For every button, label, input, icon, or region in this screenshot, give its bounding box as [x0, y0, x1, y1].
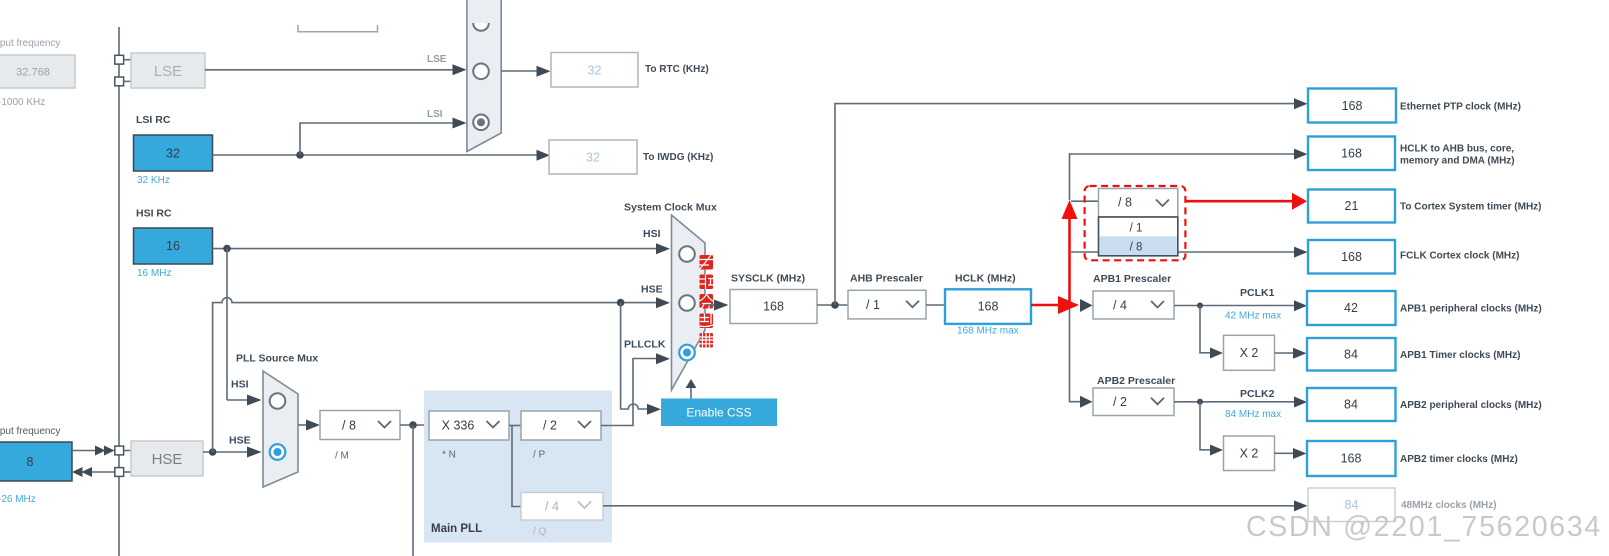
node HSE junction [209, 448, 217, 456]
wire N to P [509, 425, 521, 427]
svg-text:LSI: LSI [427, 109, 443, 120]
svg-text:84: 84 [1344, 398, 1358, 412]
svg-text:To Cortex System timer (MHz): To Cortex System timer (MHz) [1400, 202, 1542, 213]
multiplier X2 APB2 [1224, 436, 1275, 471]
output box APB1 timer 84 [1307, 338, 1396, 371]
svg-text:HCLK to AHB bus, core,: HCLK to AHB bus, core, [1400, 143, 1514, 154]
wire AHB to HCLK [926, 304, 945, 306]
SYSCLK value box 168 [730, 290, 817, 324]
wire Enable CSS up arrow [690, 388, 692, 399]
svg-text:32: 32 [166, 147, 180, 161]
wire PCLK1 [1174, 305, 1294, 307]
output box ethernet PTP 168 [1308, 89, 1396, 123]
svg-text:APB2 peripheral clocks (MHz): APB2 peripheral clocks (MHz) [1400, 400, 1542, 411]
button Enable CSS [661, 399, 777, 427]
node PCLK1 junction [1197, 303, 1203, 309]
svg-text:HCLK (MHz): HCLK (MHz) [955, 273, 1016, 285]
Main PLL panel [424, 391, 612, 543]
svg-text:168 MHz max: 168 MHz max [957, 326, 1019, 337]
svg-text:-1000 KHz: -1000 KHz [0, 97, 45, 108]
radio sys HSE (unselected) [679, 295, 695, 311]
svg-text:X 2: X 2 [1240, 447, 1259, 461]
svg-text:84: 84 [1345, 498, 1359, 512]
wire LSI branch to RTC mux [300, 123, 453, 155]
radio PLL HSI (unselected) [270, 393, 286, 409]
wire branch down to Q [512, 426, 521, 507]
svg-text:APB1 Prescaler: APB1 Prescaler [1093, 273, 1171, 285]
svg-text:8: 8 [27, 455, 34, 469]
output box APB1 peripheral 42 [1307, 291, 1396, 325]
wire HSE pin stubs [124, 450, 131, 452]
wire stub to cortex prescaler [1071, 200, 1099, 202]
wire HSE output [203, 451, 247, 453]
svg-text:To RTC (KHz): To RTC (KHz) [645, 64, 709, 75]
wire HSI to system clock mux [213, 248, 657, 250]
node LSI junction [296, 151, 304, 159]
svg-text:/ 4: / 4 [1113, 299, 1127, 313]
wire gray vertical down to APB2 [1070, 305, 1081, 402]
node HSI junction [223, 245, 231, 253]
wire HSI branch down to PLL mux [226, 249, 228, 400]
svg-text:APB2 timer clocks (MHz): APB2 timer clocks (MHz) [1400, 454, 1518, 465]
svg-text:32 KHz: 32 KHz [137, 175, 170, 186]
radio sys HSI (unselected) [679, 246, 695, 262]
svg-text:* N: * N [442, 450, 456, 461]
HSE input frequency field 8 [0, 442, 72, 481]
wire FCLK line [1071, 251, 1294, 253]
svg-text:32.768: 32.768 [16, 67, 50, 79]
output box 48MHz clocks 84 (disabled) [1308, 488, 1395, 522]
oscillator HSE [131, 441, 203, 476]
svg-text:/ P: / P [533, 450, 546, 461]
char xuan [700, 314, 714, 329]
oscillator LSI RC 32 [134, 135, 213, 171]
svg-text:PLL Source Mux: PLL Source Mux [236, 353, 318, 365]
wire HSE up to system clock mux (with hop over HSI line) [213, 298, 656, 452]
mux PLL source [263, 371, 298, 487]
wire SYSCLK to AHB [817, 304, 848, 306]
char lu [700, 275, 714, 290]
svg-text:Main PLL: Main PLL [431, 523, 482, 535]
wire HCLK red [1031, 304, 1058, 307]
svg-text:168: 168 [1341, 452, 1362, 466]
svg-text:PCLK1: PCLK1 [1240, 287, 1275, 299]
wire HSE to Enable CSS (hop over PLLCLK line) [621, 303, 647, 409]
svg-text:42 MHz max: 42 MHz max [1225, 311, 1281, 322]
partial box top (cut off) [298, 25, 378, 32]
output box FCLK 168 [1308, 240, 1395, 274]
wire down to APB1 timer X2 [1200, 306, 1210, 353]
multiplier X2 APB1 [1224, 335, 1275, 370]
node PLL input junction [409, 421, 417, 429]
svg-text:X 336: X 336 [442, 419, 475, 433]
dropdown APB1 prescaler /4 [1093, 291, 1174, 319]
annotation red chinese chars (vertical) [700, 255, 714, 348]
svg-text:48MHz clocks (MHz): 48MHz clocks (MHz) [1401, 500, 1497, 511]
svg-text:/ 2: / 2 [1113, 395, 1127, 409]
svg-text:HSI RC: HSI RC [136, 208, 172, 220]
output box APB2 timer 168 [1307, 441, 1396, 476]
svg-text:PLLCLK: PLLCLK [624, 339, 666, 351]
wire LSE pin stubs [124, 59, 131, 61]
svg-text:X 2: X 2 [1240, 346, 1259, 360]
dropdown AHB prescaler /1 [848, 290, 926, 319]
svg-text:/ 1: / 1 [1130, 223, 1143, 235]
svg-text:168: 168 [763, 300, 784, 314]
wire X2 to APB2 timer box [1275, 452, 1294, 454]
wire X2 to APB1 timer box [1275, 352, 1294, 354]
svg-text:Enable CSS: Enable CSS [686, 406, 751, 420]
svg-text:SYSCLK (MHz): SYSCLK (MHz) [731, 273, 805, 285]
svg-text:Ethernet PTP clock (MHz): Ethernet PTP clock (MHz) [1400, 102, 1521, 113]
char fen [700, 294, 714, 309]
svg-text:84: 84 [1344, 348, 1358, 362]
radio PLL HSE (selected) [270, 444, 286, 460]
svg-text:To IWDG (KHz): To IWDG (KHz) [643, 152, 713, 163]
oscillator HSI RC 16 [134, 228, 213, 264]
wire red vertical up [1068, 219, 1071, 304]
dropdown /M divider [320, 411, 400, 440]
pin square LSE top [115, 55, 124, 64]
dropdown /Q divider (disabled) [521, 493, 603, 521]
svg-text:-26 MHz: -26 MHz [0, 494, 36, 505]
wire /M to PLL [400, 424, 429, 426]
wire vertical bus line [118, 27, 120, 556]
svg-text:16 MHz: 16 MHz [137, 268, 171, 279]
svg-text:memory and DMA (MHz): memory and DMA (MHz) [1400, 156, 1515, 167]
svg-text:System Clock Mux: System Clock Mux [624, 202, 717, 214]
svg-text:/ 2: / 2 [543, 419, 557, 433]
svg-text:HSE: HSE [229, 435, 251, 447]
char qi [700, 333, 714, 348]
HCLK value box 168 [945, 289, 1031, 324]
mux system clock [672, 215, 706, 390]
radio RTC LSE (unselected) [473, 64, 489, 80]
svg-text:168: 168 [1341, 147, 1362, 161]
svg-text:AHB Prescaler: AHB Prescaler [850, 273, 923, 285]
svg-text:84 MHz max: 84 MHz max [1225, 409, 1281, 420]
wire down to APB2 timer X2 [1200, 402, 1210, 450]
svg-text:/ 4: / 4 [545, 500, 559, 514]
svg-text:Input frequency: Input frequency [0, 426, 60, 437]
svg-text:LSE: LSE [154, 63, 182, 80]
wire PLLCLK from /P to system mux [601, 359, 656, 426]
svg-text:32: 32 [586, 151, 600, 165]
svg-text:/ 8: / 8 [1118, 196, 1132, 210]
svg-text:/ 1: / 1 [866, 298, 880, 312]
output box HCLK AHB 168 [1308, 137, 1395, 171]
svg-text:CSDN @2201_75620634: CSDN @2201_75620634 [1246, 511, 1602, 543]
wire RTC mux output [501, 70, 536, 72]
svg-text:HSI: HSI [231, 379, 249, 391]
svg-text:PCLK2: PCLK2 [1240, 388, 1275, 400]
mux RTC clock (cut off at top) [467, 0, 501, 152]
dropdown open menu [1099, 217, 1178, 256]
dropdown APB2 prescaler /2 [1093, 388, 1174, 416]
pin square LSE bottom [115, 77, 124, 86]
svg-text:APB1 Timer clocks (MHz): APB1 Timer clocks (MHz) [1400, 350, 1520, 361]
svg-text:HSI: HSI [643, 228, 661, 240]
svg-text:/ 8: / 8 [342, 419, 356, 433]
To IWDG value box 32 [549, 140, 637, 174]
svg-text:/ Q: / Q [533, 527, 547, 538]
svg-text:LSI RC: LSI RC [136, 114, 171, 126]
wire PLL input down [412, 425, 414, 556]
dropdown /P divider [521, 411, 601, 440]
wire SYSCLK up to ethernet PTP [835, 104, 1294, 305]
output box APB2 peripheral 84 [1307, 388, 1396, 421]
node HSE css junction [617, 299, 625, 307]
svg-text:/ 8: / 8 [1130, 242, 1143, 254]
wire HSE in arrows [72, 450, 96, 452]
node PCLK2 junction [1197, 399, 1203, 405]
pin square HSE top [115, 446, 124, 455]
svg-text:168: 168 [978, 300, 999, 314]
wire red to cortex timer [1185, 200, 1292, 203]
svg-text:16: 16 [166, 239, 180, 253]
oscillator LSE [131, 53, 205, 88]
svg-text:HSE: HSE [641, 284, 663, 296]
radio sys PLLCLK (selected) [679, 345, 695, 361]
svg-text:/ M: / M [335, 451, 349, 462]
svg-text:HSE: HSE [152, 451, 183, 468]
To RTC value box 32 [551, 53, 638, 88]
char duo [700, 255, 714, 270]
svg-text:APB2 Prescaler: APB2 Prescaler [1097, 375, 1175, 387]
svg-text:LSE: LSE [427, 54, 447, 65]
output box cortex timer 21 [1308, 190, 1395, 223]
pin square HSE bottom [115, 468, 124, 477]
svg-text:APB1 peripheral clocks (MHz): APB1 peripheral clocks (MHz) [1400, 304, 1542, 315]
wire gray vertical up to HCLK AHB bus [1070, 154, 1295, 200]
wire LSI to IWDG [213, 154, 537, 156]
radio RTC LSI (selected gray) [473, 115, 489, 131]
highlight dashed red rect [1085, 186, 1186, 260]
node ethernet junction [831, 301, 839, 309]
wire /Q output to 48MHz clocks [603, 505, 1294, 507]
svg-text:21: 21 [1345, 199, 1359, 213]
dropdown cortex system timer /8 [1099, 189, 1178, 218]
wire LSE to RTC mux [205, 69, 453, 71]
svg-text:FCLK Cortex clock (MHz): FCLK Cortex clock (MHz) [1400, 250, 1519, 261]
svg-text:32: 32 [588, 64, 602, 78]
wire PCLK2 [1174, 401, 1294, 403]
wire PLL mux output [298, 424, 306, 426]
dropdown *N multiplier [429, 411, 509, 440]
LSE input frequency field 32.768 [0, 55, 75, 88]
wire SYSCLK output [705, 304, 714, 306]
radio RTC top (partial) [473, 23, 489, 31]
svg-text:Input frequency: Input frequency [0, 38, 60, 49]
svg-text:42: 42 [1344, 301, 1358, 315]
svg-text:168: 168 [1341, 250, 1362, 264]
svg-text:168: 168 [1342, 99, 1363, 113]
